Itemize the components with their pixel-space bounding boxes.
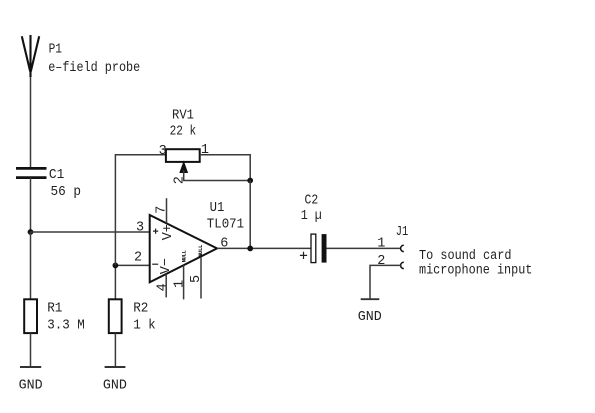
op-amp pin 5 line: [200, 257, 202, 299]
wire C2 to J1 pin 1: [327, 247, 401, 249]
wire node A to op-amp pin 3: [31, 231, 150, 233]
resistor R2: [109, 299, 122, 333]
svg-text:R2: R2: [133, 302, 148, 317]
svg-text:TL071: TL071: [207, 218, 244, 233]
svg-text:C1: C1: [49, 168, 64, 183]
wire op-amp output to C2: [217, 247, 311, 249]
node C junction dot: [247, 178, 253, 184]
op-amp pin 4 line: [165, 274, 167, 297]
svg-text:GND: GND: [358, 310, 382, 325]
wire J1 pin 2 to ground: [370, 265, 401, 299]
capacitor C1: [16, 168, 47, 177]
svg-text:P1: P1: [49, 43, 62, 58]
svg-text:1: 1: [377, 237, 385, 252]
wire C1 to node A: [30, 178, 32, 232]
ground symbol below J1: [361, 298, 380, 300]
svg-text:V−: V−: [159, 258, 174, 274]
wire R2 to ground: [114, 333, 116, 367]
svg-text:2: 2: [134, 251, 142, 266]
svg-text:NULL: NULL: [197, 244, 204, 257]
svg-text:22 k: 22 k: [170, 125, 197, 140]
wire node B up to RV1 pin 3: [115, 155, 165, 266]
wire node B to R2: [114, 265, 116, 299]
svg-text:56 p: 56 p: [51, 185, 82, 200]
wire RV1 pin 1 to node C: [200, 155, 251, 181]
svg-text:1: 1: [201, 143, 209, 158]
wire R1 to ground: [30, 333, 32, 367]
C2 plus marker: [300, 252, 307, 259]
svg-text:2: 2: [377, 254, 385, 269]
op-amp U1 triangle: [150, 215, 217, 282]
svg-text:1 µ: 1 µ: [301, 209, 322, 224]
wire node C to output node: [249, 181, 251, 249]
node A junction dot: [28, 229, 34, 235]
svg-text:NULL: NULL: [180, 250, 187, 263]
ground symbol below R2: [105, 366, 126, 368]
op-amp plus marker: [153, 229, 158, 234]
connector J1 pin 1 arc: [401, 245, 404, 251]
potentiometer RV1 body: [166, 149, 200, 162]
svg-text:U1: U1: [210, 201, 225, 216]
capacitor C2 negative plate: [322, 234, 327, 263]
svg-text:V+: V+: [161, 224, 176, 240]
svg-text:To sound card: To sound card: [419, 249, 512, 264]
wire antenna to C1: [30, 77, 32, 168]
svg-text:3.3 M: 3.3 M: [47, 318, 85, 333]
ground symbol below R1: [20, 366, 41, 368]
svg-text:7: 7: [155, 206, 170, 214]
wire node A to R1: [30, 232, 32, 299]
op-amp pin 7 line: [166, 198, 168, 223]
svg-text:1 k: 1 k: [133, 318, 156, 333]
antenna P1: [22, 35, 39, 77]
svg-text:R1: R1: [47, 302, 62, 317]
svg-text:4: 4: [156, 283, 171, 291]
svg-text:5: 5: [189, 275, 204, 283]
RV1 wiper arrow: [180, 162, 187, 173]
svg-text:RV1: RV1: [172, 109, 194, 124]
svg-text:3: 3: [159, 144, 167, 159]
svg-text:e–field probe: e–field probe: [48, 61, 140, 76]
svg-text:GND: GND: [19, 379, 43, 394]
connector J1 pin 2 arc: [401, 262, 404, 268]
svg-text:2: 2: [172, 176, 187, 184]
RV1 wiper stem wire: [184, 170, 251, 181]
resistor R1: [24, 299, 37, 333]
svg-text:C2: C2: [305, 193, 319, 208]
svg-text:1: 1: [172, 280, 187, 288]
svg-text:GND: GND: [103, 379, 127, 394]
node B junction dot: [113, 263, 119, 269]
svg-text:J1: J1: [396, 225, 409, 240]
output node junction dot: [247, 246, 253, 252]
svg-text:3: 3: [136, 221, 144, 236]
op-amp minus marker: [152, 263, 158, 265]
svg-text:microphone input: microphone input: [419, 263, 532, 278]
op-amp pin 1 line: [183, 265, 185, 299]
capacitor C2 positive plate: [311, 234, 316, 263]
wire node B to op-amp pin 2: [115, 264, 149, 266]
